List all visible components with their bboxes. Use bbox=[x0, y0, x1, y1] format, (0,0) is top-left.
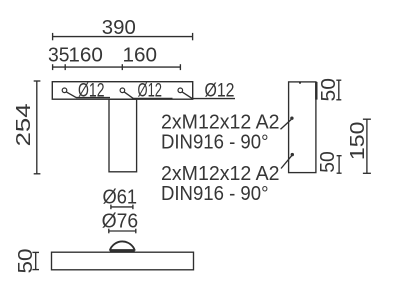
side view top center notch bbox=[299, 82, 301, 84]
hole 3 bbox=[178, 88, 183, 93]
svg-text:Ø61: Ø61 bbox=[103, 186, 138, 208]
svg-text:390: 390 bbox=[102, 17, 136, 39]
top plate (front view, 390x50) bbox=[52, 82, 192, 100]
svg-text:50: 50 bbox=[318, 78, 340, 102]
dimension tick 50 bottom-right bbox=[337, 156, 342, 174]
dimension line Ø61 bbox=[111, 205, 134, 210]
leader hole 3 bbox=[182, 92, 192, 99]
underline hole 2 label bbox=[133, 97, 173, 99]
svg-text:150: 150 bbox=[347, 122, 369, 161]
dimension tick 50 top bbox=[336, 80, 341, 100]
svg-text:Ø12: Ø12 bbox=[78, 80, 105, 101]
side view plate edge thick segment bbox=[315, 82, 317, 100]
underline hole 3 label bbox=[192, 98, 235, 100]
side view tube body bbox=[289, 82, 316, 173]
dimension line 150 bbox=[363, 119, 371, 173]
svg-text:160: 160 bbox=[123, 45, 158, 67]
svg-text:160: 160 bbox=[68, 45, 103, 67]
svg-text:35: 35 bbox=[48, 45, 70, 67]
bottom wall plate bbox=[52, 252, 194, 270]
svg-text:50: 50 bbox=[317, 151, 339, 173]
set screw 2 bbox=[291, 153, 294, 156]
dimension tick 50 bottom-left bbox=[32, 252, 39, 269]
svg-text:Ø12: Ø12 bbox=[138, 80, 163, 101]
svg-text:254: 254 bbox=[13, 103, 35, 146]
dimension line 254 bbox=[34, 81, 41, 174]
svg-text:DIN916 - 90°: DIN916 - 90° bbox=[161, 132, 269, 154]
svg-text:2xM12x12 A2: 2xM12x12 A2 bbox=[161, 163, 280, 185]
svg-text:DIN916 - 90°: DIN916 - 90° bbox=[161, 183, 269, 205]
underline hole 1 label bbox=[76, 97, 110, 99]
svg-text:Ø76: Ø76 bbox=[102, 210, 139, 232]
dimension line Ø76 bbox=[108, 229, 136, 234]
dome (tube stub on wall plate) bbox=[110, 241, 135, 250]
dimension line 390 bbox=[52, 33, 193, 40]
dome base chord (thick) bbox=[110, 249, 135, 252]
hole 1 bbox=[62, 88, 67, 93]
leader hole 2 bbox=[124, 92, 133, 99]
hole 2 bbox=[120, 88, 125, 93]
svg-text:Ø12: Ø12 bbox=[205, 81, 235, 102]
tube stem (front view) bbox=[109, 99, 137, 172]
leader set screw 2 bbox=[281, 156, 292, 169]
leader set screw 1 bbox=[281, 120, 292, 130]
dimension line 35/160/160 bbox=[52, 64, 181, 70]
leader hole 1 bbox=[66, 92, 76, 98]
set screw 1 bbox=[290, 117, 293, 120]
svg-text:2xM12x12 A2: 2xM12x12 A2 bbox=[161, 112, 280, 134]
